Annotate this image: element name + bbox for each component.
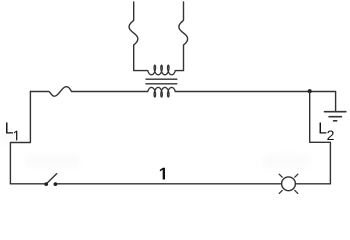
wire: main line left segment with break squiggle xyxy=(30,87,147,97)
label 1 (node number) xyxy=(160,168,165,180)
wire: main line right segment to ground stub xyxy=(175,92,335,112)
switch S1 left contact dot xyxy=(44,182,48,186)
faint erased-watermark smudge bottom-left xyxy=(25,154,80,168)
svg-text:2: 2 xyxy=(327,127,335,143)
node junction dot xyxy=(308,89,312,93)
ground symbol xyxy=(325,112,346,121)
switch S1 (open) blade xyxy=(46,174,57,184)
wire: bottom left segment xyxy=(10,183,46,185)
faint erased-watermark smudge above lamp xyxy=(262,154,310,169)
switch S1 right contact dot xyxy=(54,182,58,186)
svg-text:L: L xyxy=(5,121,14,138)
lamp DS1 body xyxy=(282,177,296,191)
wire: L2 terminal drop (right) xyxy=(310,92,331,184)
transformer T1 primary winding xyxy=(148,65,176,75)
wire: right supply lead with break squiggle xyxy=(175,2,187,71)
faint smudge near L1 xyxy=(0,128,14,144)
transformer T1 secondary winding xyxy=(148,87,176,97)
wire: bottom middle segment xyxy=(57,183,281,185)
wire: L1 terminal drop (left) xyxy=(10,92,30,184)
wire: left supply lead with break squiggle xyxy=(129,2,148,71)
wire: bottom right segment xyxy=(295,183,330,185)
transformer T1 core line upper xyxy=(146,78,177,80)
transformer T1 core line lower xyxy=(146,83,177,85)
lamp DS1 rays xyxy=(279,174,298,193)
